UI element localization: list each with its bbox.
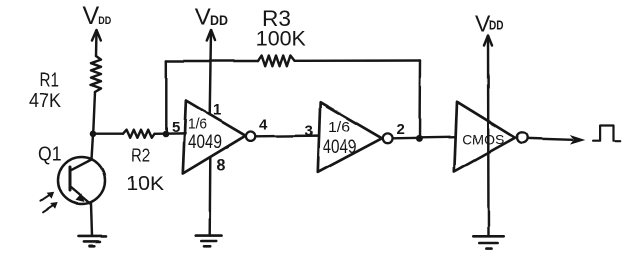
svg-text:10K: 10K (127, 173, 165, 195)
svg-text:1/6: 1/6 (328, 119, 350, 136)
svg-text:CMOS: CMOS (462, 132, 504, 148)
svg-text:R2: R2 (131, 146, 150, 166)
svg-text:3: 3 (305, 123, 313, 140)
svg-text:1/6: 1/6 (188, 116, 207, 133)
svg-text:5: 5 (172, 119, 180, 136)
svg-text:R1: R1 (40, 70, 60, 91)
svg-text:2: 2 (397, 121, 405, 138)
svg-text:8: 8 (217, 158, 226, 175)
svg-text:100K: 100K (256, 27, 306, 50)
svg-text:4049: 4049 (188, 132, 222, 153)
svg-text:DD: DD (489, 19, 504, 33)
svg-text:DD: DD (210, 12, 228, 28)
svg-text:DD: DD (98, 15, 111, 27)
svg-text:V: V (83, 2, 100, 30)
svg-text:V: V (195, 4, 211, 31)
svg-text:47K: 47K (29, 90, 62, 112)
svg-text:Q1: Q1 (38, 144, 62, 166)
svg-text:4: 4 (259, 116, 268, 133)
svg-text:4049: 4049 (323, 137, 357, 158)
svg-text:1: 1 (213, 102, 221, 119)
